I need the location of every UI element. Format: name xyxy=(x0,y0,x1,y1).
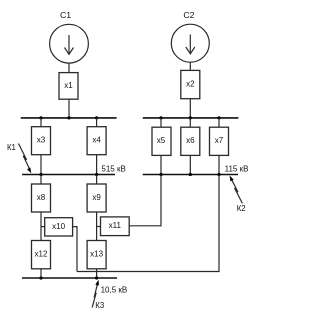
wire C1 to x1 xyxy=(68,63,70,73)
wire x1 to left bus xyxy=(68,99,70,118)
svg-text:115 кВ: 115 кВ xyxy=(225,164,249,173)
svg-text:x2: x2 xyxy=(186,80,195,89)
busbar 115 kV xyxy=(143,174,238,176)
breaker x8 xyxy=(32,184,51,212)
svg-text:К3: К3 xyxy=(95,301,104,310)
wire x8 to x12 xyxy=(40,212,42,241)
node x6 lower tap xyxy=(189,173,192,176)
node x13 bottom tap xyxy=(95,276,98,279)
wire x5 to 115 bus xyxy=(160,155,162,174)
svg-text:x3: x3 xyxy=(37,136,46,145)
node x11 link tap xyxy=(159,173,162,176)
wire link line to 115 bus xyxy=(77,175,219,272)
breaker x3 xyxy=(32,127,51,155)
wire bus to x6 xyxy=(189,118,191,127)
breaker x13 xyxy=(87,241,106,269)
breaker x9 xyxy=(87,184,106,212)
svg-text:C1: C1 xyxy=(60,10,71,20)
node x2 tap xyxy=(189,116,192,119)
breaker x5 xyxy=(152,127,171,155)
svg-text:x1: x1 xyxy=(64,81,73,90)
wire 515 bus to x8 xyxy=(40,175,42,185)
svg-text:x7: x7 xyxy=(215,136,224,145)
svg-text:x9: x9 xyxy=(92,193,101,202)
node x5 tap xyxy=(159,116,162,119)
transformer x1 xyxy=(59,73,78,100)
busbar 515 kV xyxy=(22,174,115,176)
wire x9 to x13 xyxy=(96,212,98,241)
svg-text:x4: x4 xyxy=(92,136,101,145)
wire x3 to 515 bus xyxy=(40,155,42,175)
transformer x10 xyxy=(45,218,73,236)
svg-text:x10: x10 xyxy=(52,222,65,231)
svg-text:x8: x8 xyxy=(37,193,46,202)
fault arrow K1 xyxy=(19,144,32,174)
wire x9 line to x11 xyxy=(97,226,101,228)
node x7 tap xyxy=(217,116,220,119)
breaker x7 xyxy=(210,127,229,155)
busbar 10.5 kV xyxy=(22,277,117,279)
node x4 tap xyxy=(95,116,98,119)
wire bus to x7 xyxy=(218,118,220,127)
svg-text:10,5 кВ: 10,5 кВ xyxy=(101,285,128,294)
transformer x11 xyxy=(101,217,130,236)
generator C1 xyxy=(50,24,89,63)
node x9 tap xyxy=(95,173,98,176)
wire bus to x5 xyxy=(160,118,162,127)
svg-text:x11: x11 xyxy=(109,221,122,230)
svg-text:К2: К2 xyxy=(237,204,246,213)
svg-text:К1: К1 xyxy=(7,143,16,152)
node x7 lower tap xyxy=(217,173,220,176)
wire x12 to 10.5 bus xyxy=(40,269,42,278)
wire x11 to 115 bus xyxy=(129,175,161,226)
breaker x6 xyxy=(181,127,200,155)
svg-text:x5: x5 xyxy=(157,136,166,145)
node x1 tap xyxy=(67,116,70,119)
wire x10 to link line xyxy=(73,227,77,272)
node x12 bottom tap xyxy=(39,276,42,279)
svg-text:515 кВ: 515 кВ xyxy=(101,164,125,173)
wire x8 line to x10 xyxy=(41,226,45,228)
wire bus to x3 xyxy=(40,118,42,127)
wire x13 to 10.5 bus xyxy=(96,269,98,278)
fault arrow K3 xyxy=(92,280,99,308)
wire x6 to 115 bus xyxy=(189,155,191,174)
svg-text:x13: x13 xyxy=(90,250,103,259)
fault arrow K2 xyxy=(230,176,243,204)
busbar left station xyxy=(21,117,117,119)
svg-text:x12: x12 xyxy=(35,250,48,259)
wire x2 to right bus xyxy=(189,99,191,118)
svg-text:C2: C2 xyxy=(183,10,194,20)
breaker x4 xyxy=(87,127,106,155)
svg-text:x6: x6 xyxy=(186,136,195,145)
breaker x12 xyxy=(32,241,51,269)
wire x7 to 115 bus xyxy=(218,155,220,174)
wire 515 bus to x9 xyxy=(96,175,98,185)
wire bus to x4 xyxy=(96,118,98,127)
wire C2 to x2 xyxy=(189,62,191,70)
transformer x2 xyxy=(181,70,200,98)
busbar right station xyxy=(143,117,239,119)
wire x4 to 515 bus xyxy=(96,155,98,175)
generator C2 xyxy=(171,24,209,62)
node x3 tap xyxy=(39,116,42,119)
node x8 tap xyxy=(39,173,42,176)
